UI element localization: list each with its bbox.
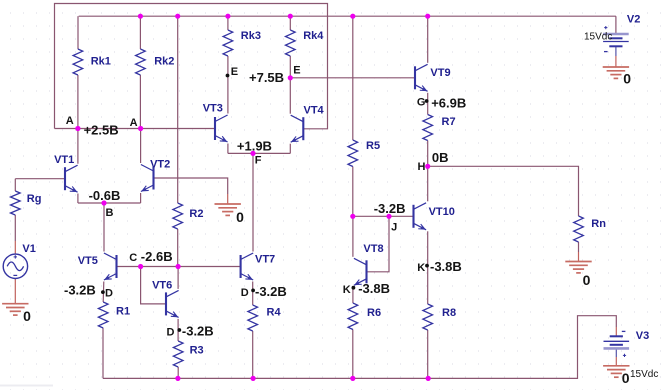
svg-text:R1: R1: [116, 306, 130, 318]
svg-text:15Vdc: 15Vdc: [630, 369, 658, 380]
svg-text:-0.6B: -0.6B: [89, 188, 121, 203]
svg-text:A: A: [66, 115, 74, 127]
svg-text:+6.9B: +6.9B: [431, 95, 466, 110]
svg-text:F: F: [255, 155, 262, 167]
svg-text:-3.2B: -3.2B: [64, 283, 96, 298]
svg-text:-3.8B: -3.8B: [358, 281, 390, 296]
svg-text:Rk2: Rk2: [154, 56, 174, 68]
svg-text:G: G: [417, 97, 426, 109]
svg-text:C: C: [129, 252, 137, 264]
svg-text:H: H: [418, 161, 426, 173]
svg-text:0: 0: [622, 370, 630, 386]
svg-text:D: D: [241, 287, 249, 299]
svg-text:V1: V1: [22, 243, 35, 255]
svg-text:R7: R7: [442, 116, 456, 128]
svg-text:VT10: VT10: [429, 206, 455, 218]
svg-text:VT7: VT7: [255, 253, 275, 265]
svg-text:R8: R8: [442, 307, 456, 319]
svg-text:VT6: VT6: [152, 280, 172, 292]
svg-text:0: 0: [23, 308, 31, 324]
svg-text:R4: R4: [267, 307, 282, 319]
svg-text:Rk1: Rk1: [91, 55, 111, 67]
svg-text:-3.2B: -3.2B: [255, 284, 287, 299]
svg-text:Rg: Rg: [27, 193, 42, 205]
svg-text:-3.2B: -3.2B: [374, 201, 406, 216]
svg-text:Rk3: Rk3: [241, 30, 261, 42]
svg-text:-2.6B: -2.6B: [141, 249, 173, 264]
svg-text:V3: V3: [636, 330, 649, 342]
svg-text:V2: V2: [627, 14, 640, 26]
svg-text:D: D: [167, 326, 175, 338]
svg-text:0: 0: [583, 272, 591, 288]
svg-text:E: E: [231, 66, 238, 78]
svg-text:R2: R2: [189, 208, 203, 220]
svg-text:VT8: VT8: [363, 243, 383, 255]
svg-text:+1.9B: +1.9B: [237, 138, 272, 153]
svg-text:-3.2B: -3.2B: [182, 323, 214, 338]
svg-text:R6: R6: [367, 307, 381, 319]
svg-text:E: E: [293, 65, 300, 77]
svg-text:VT9: VT9: [430, 67, 450, 79]
svg-text:K: K: [417, 262, 425, 274]
svg-text:VT3: VT3: [203, 103, 223, 115]
svg-text:VT4: VT4: [304, 105, 325, 117]
svg-text:VT1: VT1: [54, 154, 74, 166]
svg-text:Rn: Rn: [591, 218, 606, 230]
svg-text:+7.5B: +7.5B: [249, 70, 284, 85]
svg-text:0B: 0B: [432, 150, 449, 165]
svg-text:+2.5B: +2.5B: [84, 122, 119, 137]
svg-text:A: A: [130, 117, 138, 129]
svg-text:B: B: [106, 207, 114, 219]
svg-text:D: D: [105, 288, 113, 300]
svg-text:0: 0: [236, 209, 244, 225]
svg-text:-3.8B: -3.8B: [430, 259, 462, 274]
svg-text:15Vdc: 15Vdc: [584, 32, 612, 43]
svg-text:J: J: [391, 222, 397, 234]
svg-text:VT2: VT2: [150, 159, 170, 171]
svg-text:R3: R3: [190, 345, 204, 357]
svg-text:R5: R5: [366, 140, 380, 152]
svg-text:K: K: [343, 284, 351, 296]
svg-text:VT5: VT5: [78, 255, 98, 267]
svg-text:Rk4: Rk4: [303, 30, 324, 42]
svg-text:0: 0: [623, 70, 631, 86]
